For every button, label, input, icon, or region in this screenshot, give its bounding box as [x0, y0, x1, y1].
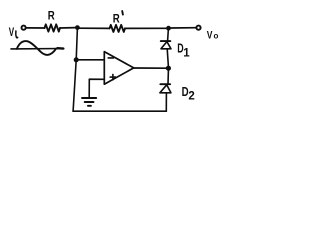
- wire: [26, 27, 44, 29]
- svg-text:V: V: [207, 29, 213, 41]
- input terminal: [22, 26, 26, 30]
- wire: [125, 27, 166, 29]
- wire: [60, 27, 76, 29]
- wire: [80, 27, 110, 29]
- node junction B: [166, 26, 171, 31]
- wire: [165, 93, 167, 111]
- label Vi: [9, 26, 18, 39]
- wire: [73, 28, 77, 111]
- ground: [82, 98, 96, 106]
- svg-text:2: 2: [188, 91, 194, 103]
- wire: [171, 27, 196, 29]
- wire: [167, 71, 169, 85]
- diode D2: [160, 84, 171, 93]
- svg-text:1: 1: [183, 48, 190, 60]
- resistor R: [45, 24, 61, 31]
- wire: [76, 59, 104, 61]
- source waveform: [11, 41, 64, 55]
- wire: [167, 28, 170, 41]
- node junction A: [75, 25, 80, 30]
- svg-text:R: R: [48, 9, 55, 23]
- svg-text:R: R: [113, 11, 120, 25]
- wire: [134, 67, 167, 69]
- wire: [89, 79, 104, 98]
- node junction D: [74, 57, 79, 62]
- wire: [73, 110, 166, 112]
- resistor R': [110, 25, 126, 32]
- label D2: [182, 84, 195, 103]
- diode D1: [161, 41, 171, 49]
- node junction C: [166, 66, 171, 71]
- label R': [113, 11, 123, 25]
- wire: [167, 49, 168, 67]
- op-amp U1: [104, 52, 133, 85]
- label D1: [177, 42, 190, 60]
- svg-text:V: V: [9, 26, 15, 39]
- output terminal: [196, 26, 200, 30]
- label Vo: [207, 29, 219, 41]
- svg-text:o: o: [214, 32, 219, 41]
